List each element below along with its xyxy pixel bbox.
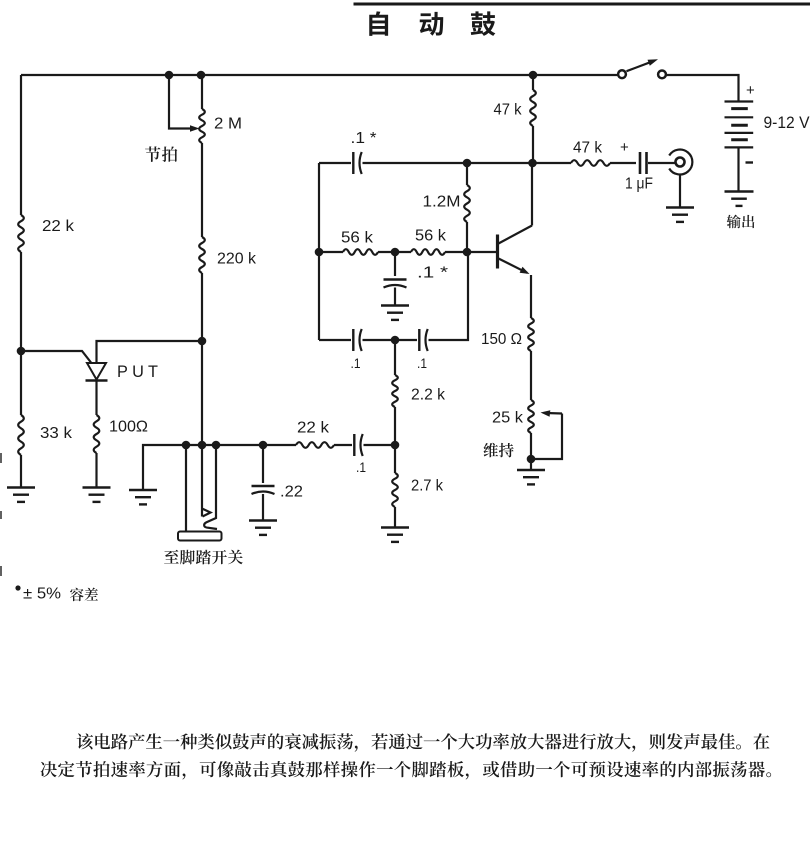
svg-text:2.2 k: 2.2 k — [411, 387, 445, 404]
svg-text:.1 *: .1 * — [417, 265, 448, 282]
title 自动鼓 (automatic drum) — [369, 11, 495, 36]
wire: bus to 47k and 47k to collector node — [532, 75, 534, 163]
node: 2.2k / 2.7k junction — [391, 441, 400, 450]
svg-text:25 k: 25 k — [492, 410, 523, 427]
wire: 1.2M top lead — [466, 163, 468, 185]
wire: 1uF to jack — [648, 162, 676, 164]
scan artifacts left edge — [0, 453, 2, 576]
svg-text:56 k: 56 k — [341, 230, 373, 247]
output jack J1 — [669, 150, 692, 175]
capacitor 1uF electrolytic — [620, 139, 653, 193]
wire: 100ohm to ground — [95, 453, 97, 488]
resistor 2.7k — [392, 473, 443, 507]
wire: PUT anode lead — [97, 341, 203, 363]
wire: 22k to cap — [334, 444, 352, 446]
wire: bus to .22 cap — [262, 445, 264, 483]
wire: bottom node to 2.2k — [394, 340, 396, 375]
wire: twin-T left vertical — [318, 163, 320, 340]
node: collector node — [528, 159, 537, 168]
svg-text:.1 *: .1 * — [351, 130, 377, 147]
wire: emitter down — [530, 275, 532, 318]
svg-text:100Ω: 100Ω — [109, 419, 148, 436]
svg-text:220 k: 220 k — [217, 251, 256, 268]
node: .22 cap tap — [259, 441, 268, 450]
wire: twin-T top to output row — [363, 162, 572, 164]
resistor 150 ohm — [481, 318, 534, 351]
wire: 25k to ground — [530, 433, 532, 470]
node: twin-T centre — [391, 248, 400, 257]
wire: pedal contact middle with hook — [202, 445, 211, 517]
potentiometer 2M (tempo) — [199, 109, 242, 143]
caption line 2 — [40, 761, 771, 780]
title rule line — [354, 3, 810, 6]
svg-text:33 k: 33 k — [40, 425, 72, 442]
resistor 22k (coupling) — [296, 420, 334, 448]
node: foot switch taps — [182, 441, 221, 450]
node: 25k bottom / wiper join — [527, 455, 536, 464]
ground under battery — [725, 192, 754, 206]
svg-text:+: + — [746, 82, 755, 99]
node: 1.2M bottom — [463, 248, 472, 257]
wire: 2M wiper arm — [169, 75, 200, 132]
svg-text:.1: .1 — [356, 459, 366, 475]
svg-text:P U T: P U T — [117, 362, 158, 381]
ground at lower bus left end — [129, 490, 157, 504]
wire: lower bus with ground stub — [143, 445, 296, 490]
switch S1 — [618, 59, 666, 78]
resistor 47k (output) — [571, 140, 610, 166]
resistor 2.2k — [392, 375, 445, 407]
svg-text:22 k: 22 k — [297, 420, 329, 437]
resistor 47k (collector load) — [494, 90, 536, 126]
svg-text:+: + — [620, 139, 629, 156]
wire: shunt cap to ground — [394, 288, 396, 306]
label 输出 (output) — [727, 215, 755, 229]
ground under 2.7k — [381, 528, 409, 542]
label 至脚踏开关 (to foot switch) — [164, 550, 243, 565]
wire: mid row left — [319, 251, 343, 253]
node: twin-T mid-left — [315, 248, 324, 257]
wire: collector up — [531, 163, 533, 226]
node: PUT anode junction — [198, 337, 207, 346]
resistor 100 ohm — [94, 415, 148, 453]
wire: bottom row middle — [363, 339, 418, 341]
svg-text:9-12 V: 9-12 V — [764, 114, 810, 132]
node: 2M top on bus — [197, 71, 206, 80]
svg-text:.1: .1 — [351, 355, 361, 371]
svg-text:47 k: 47 k — [573, 140, 602, 157]
wire: between 56k resistors — [378, 251, 411, 253]
wire: switch to battery — [666, 75, 739, 101]
wire: PUT gate lead — [21, 351, 91, 363]
wire: top supply bus — [21, 74, 618, 76]
svg-text:56 k: 56 k — [415, 228, 446, 245]
wire: .22 cap to ground — [262, 494, 264, 521]
capacitor .1* (twin-T top) — [351, 130, 377, 174]
node: tempo pot wiper tap on bus — [165, 71, 174, 80]
svg-text:2.7 k: 2.7 k — [411, 478, 443, 495]
ground under 100ohm — [83, 488, 111, 502]
resistor 56k (left) — [341, 230, 378, 255]
wire: left rail lower — [20, 351, 22, 415]
wire: pedal contact left — [185, 445, 187, 532]
wire: 2.2k to lower bus — [394, 407, 396, 445]
svg-text:.22: .22 — [280, 484, 303, 501]
wire: left rail middle — [20, 252, 22, 351]
wire: PUT cathode to 100ohm — [95, 381, 97, 416]
label 节拍 (tempo) — [145, 146, 177, 162]
resistor 22k (left rail) — [18, 215, 74, 252]
wire: 2.7k to ground — [394, 507, 396, 528]
wire: 33k to ground — [20, 455, 22, 488]
capacitor .1 (coupling) — [354, 434, 366, 475]
wire: 1.2M bottom lead — [466, 222, 468, 252]
capacitor .22 — [252, 484, 304, 501]
potentiometer 25k (sustain) — [492, 400, 534, 433]
ground under .22 — [249, 521, 277, 535]
wire: left rail top — [20, 75, 22, 215]
ground under shunt cap — [381, 306, 409, 320]
wire: jack sleeve to ground — [679, 175, 681, 208]
wire: 47k to 1uF — [610, 162, 636, 164]
node: twin-T top right — [463, 159, 472, 168]
wire: mid row to base — [445, 251, 497, 253]
resistor 1.2M (feedback) — [423, 185, 470, 222]
wire: 2M to 220k — [201, 143, 203, 237]
wire: 25k wiper arm — [531, 410, 562, 459]
ground under 25k — [517, 470, 545, 484]
wire: bus to 2M — [201, 75, 203, 109]
wire: bottom row right + up to mid — [429, 252, 469, 340]
tolerance note — [15, 585, 98, 602]
svg-text:2 M: 2 M — [214, 116, 242, 133]
svg-text:150 Ω: 150 Ω — [481, 331, 522, 348]
wire: twin-T top left — [319, 162, 351, 164]
capacitor .1 (twin-T bottom left) — [351, 329, 362, 371]
wire: node to 2.7k — [394, 445, 396, 473]
ground under 33k — [7, 488, 35, 502]
svg-text:47 k: 47 k — [494, 102, 522, 119]
svg-text:± 5%: ± 5% — [23, 586, 61, 603]
node: twin-T bottom centre — [391, 336, 400, 345]
ground under jack — [666, 208, 694, 222]
wire: 220k down mid rail — [201, 273, 203, 445]
battery B1 9-12V — [725, 82, 810, 192]
svg-text:.1: .1 — [417, 355, 427, 371]
capacitor .1* (twin-T shunt) — [384, 265, 449, 288]
caption line 1 — [77, 733, 770, 752]
transistor Q1 — [498, 226, 533, 275]
node: left rail / PUT gate junction — [17, 347, 26, 356]
wire: twin-T bottom left — [319, 339, 351, 341]
wire: cap to 2.2k node — [364, 444, 396, 446]
PUT transistor — [86, 362, 159, 381]
resistor 56k (right) — [411, 228, 446, 255]
svg-text:1 μF: 1 μF — [625, 176, 653, 193]
wire: pedal contact right with spring squiggle — [204, 445, 217, 529]
resistor 220k — [199, 237, 256, 273]
svg-text:1.2M: 1.2M — [423, 194, 461, 211]
wire: 150ohm to 25k — [530, 351, 532, 400]
capacitor .1 (twin-T bottom right) — [417, 329, 428, 371]
label 维持 (sustain) — [484, 443, 514, 458]
resistor 33k — [18, 415, 72, 455]
node: top bus switch tap — [529, 71, 538, 80]
foot pedal bar — [178, 532, 222, 541]
wire: shunt cap lead — [394, 252, 396, 276]
svg-text:22 k: 22 k — [42, 218, 74, 235]
